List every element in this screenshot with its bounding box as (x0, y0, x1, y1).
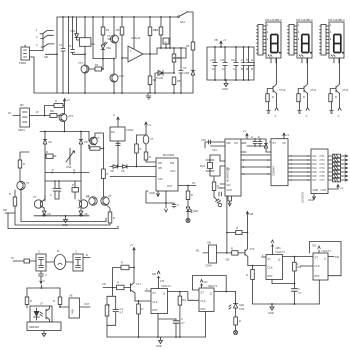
svg-text:GND: GND (156, 344, 162, 348)
svg-text:OT5: OT5 (320, 170, 326, 174)
capacitor C23 (253, 139, 257, 146)
diode VD5 (264, 139, 271, 152)
transistor VT7 (17, 181, 25, 189)
wire second input (110, 176, 156, 178)
varistor RU1 (66, 148, 75, 165)
resistor R4 (149, 17, 151, 27)
wire dac out (117, 141, 119, 167)
svg-text:OT3: OT3 (320, 162, 326, 166)
svg-text:74HC74: 74HC74 (321, 249, 331, 253)
svg-text:CLK: CLK (153, 300, 158, 304)
wire (60, 306, 69, 308)
svg-text:IN7: IN7 (313, 178, 318, 182)
svg-text:LED: LED (193, 209, 198, 213)
svg-text:VT1: VT1 (78, 61, 83, 65)
resistor R43 (293, 257, 295, 263)
svg-text:R: R (107, 172, 109, 176)
IC U2 right pin stubs (241, 143, 246, 152)
wire lower verticals (45, 173, 81, 200)
diode VD3 (191, 71, 195, 94)
svg-text:C: C (177, 203, 179, 207)
SECTION B: capacitor bank (207, 38, 254, 91)
svg-text:R: R (272, 95, 274, 99)
IC U2 bottom stubs (228, 196, 232, 206)
diode VD1 (75, 17, 80, 40)
svg-text:DR: DR (158, 161, 162, 165)
svg-text:ST: ST (201, 291, 205, 295)
svg-text:R9: R9 (186, 44, 190, 48)
wire branch (93, 17, 103, 59)
svg-text:IN4: IN4 (313, 166, 318, 170)
svg-text:R: R (335, 95, 337, 99)
capacitor C17 (57, 181, 61, 199)
wire output (83, 257, 90, 259)
svg-text:VT: VT (150, 137, 154, 141)
motor M1 (46, 261, 55, 263)
wire R pin loop (272, 280, 294, 284)
capacitor C10 (213, 47, 217, 80)
resistor R2 (88, 68, 95, 70)
wire relay bottom (73, 53, 85, 55)
svg-text:ST: ST (268, 257, 272, 261)
svg-text:Q: Q (163, 292, 165, 296)
wire ground rail (34, 92, 193, 94)
svg-text:VB: VB (214, 38, 218, 42)
svg-text:V: V (275, 114, 277, 118)
svg-text:C3: C3 (183, 66, 187, 70)
diode VD11 (118, 165, 157, 169)
supply +V stub (200, 280, 202, 289)
svg-text:VD: VD (47, 212, 51, 216)
IC U6 MC34063 (156, 158, 178, 191)
supply arrow (40, 279, 42, 284)
svg-text:GND: GND (313, 188, 319, 192)
svg-text:R: R (246, 273, 248, 277)
wire output (80, 306, 91, 308)
svg-text:VT10: VT10 (279, 88, 286, 92)
svg-text:R: R (53, 299, 55, 303)
svg-text:V: V (338, 114, 340, 118)
svg-text:ULN2003: ULN2003 (301, 191, 305, 203)
svg-text:OT4: OT4 (320, 166, 326, 170)
wire connector to switches (30, 50, 44, 52)
resistor R15 (72, 188, 79, 193)
wire emitter to clk (135, 300, 151, 302)
svg-text:+V: +V (286, 133, 290, 137)
capacitor C20 (205, 140, 220, 148)
svg-text:+V: +V (148, 123, 152, 127)
transistor VT15 (245, 249, 248, 257)
transistor VT13 (143, 135, 149, 144)
svg-text:RST: RST (268, 274, 274, 278)
svg-text:VT: VT (108, 194, 112, 198)
svg-text:IN5: IN5 (313, 170, 318, 174)
svg-text:OUT: OUT (167, 184, 173, 188)
svg-text:7406: 7406 (71, 309, 75, 315)
switch SA1 (178, 12, 188, 18)
svg-text:D: D (246, 58, 248, 62)
svg-text:GND: GND (222, 87, 228, 91)
resistor R14 (46, 154, 53, 159)
ground (165, 203, 168, 212)
svg-text:ST: ST (273, 141, 277, 145)
svg-text:DA: DA (111, 130, 115, 134)
svg-text:A: A (165, 40, 167, 44)
bus U3 to U4 (288, 156, 311, 180)
SECTION A: analog front end (19, 12, 195, 100)
capacitor C16 (53, 181, 57, 199)
ground (42, 331, 46, 337)
capacitor C24 (258, 139, 262, 146)
wire top power rail (57, 16, 178, 18)
svg-text:GN: GN (312, 244, 316, 248)
svg-text:VD: VD (102, 282, 106, 286)
wire op-amp output (143, 53, 157, 55)
transistor VT11 (297, 58, 317, 118)
resistor R13 (102, 169, 106, 179)
resistor R18 (107, 205, 111, 212)
svg-text:R6: R6 (155, 28, 159, 32)
supply +V stub (157, 271, 160, 289)
svg-text:CD40: CD40 (205, 264, 212, 268)
supply +V (241, 134, 248, 140)
svg-text:R: R (121, 261, 123, 265)
resistor R21 (136, 135, 138, 144)
wire input (13, 115, 20, 117)
svg-text:OT1: OT1 (320, 154, 326, 158)
svg-text:R: R (231, 247, 233, 251)
capacitor C11 (223, 47, 227, 80)
svg-text:R: R (9, 192, 11, 196)
svg-text:R: R (191, 193, 193, 197)
svg-text:MR: MR (227, 141, 231, 145)
svg-text:R: R (117, 281, 119, 285)
svg-text:VT11: VT11 (310, 88, 317, 92)
svg-text:R3: R3 (116, 28, 120, 32)
connector J1 (21, 47, 30, 60)
svg-text:CON: CON (321, 188, 327, 192)
resistor R25 (24, 259, 30, 263)
svg-text:4.7: 4.7 (298, 291, 302, 295)
wire right (217, 252, 232, 254)
svg-text:C: C (45, 273, 47, 277)
resistor R3 (121, 17, 123, 27)
diode VD9 (79, 208, 83, 215)
capacitor C30 (291, 289, 297, 304)
svg-text:VD3: VD3 (184, 71, 190, 75)
resistor R8 (172, 77, 176, 85)
relay K1 (79, 38, 91, 47)
resistor R35 (235, 308, 237, 317)
wire input (13, 260, 24, 262)
svg-text:DIS 1234BS-A: DIS 1234BS-A (296, 18, 313, 22)
LED VD12 (186, 207, 192, 218)
capacitor C13 (242, 47, 246, 80)
svg-text:+V: +V (340, 186, 344, 190)
resistor R12 (45, 106, 54, 116)
svg-text:ST: ST (153, 291, 157, 295)
wire S stub (145, 290, 151, 292)
resistor network RP (328, 154, 348, 182)
svg-text:P: P (52, 168, 54, 172)
wire R pin loop (158, 314, 176, 338)
wire Q out (283, 256, 314, 258)
resistor R16 (20, 152, 29, 160)
svg-text:U7: U7 (40, 302, 44, 306)
label box (27, 322, 61, 331)
svg-text:GND: GND (268, 311, 274, 315)
IC U10 flipflop (199, 288, 214, 312)
svg-text:ST: ST (315, 256, 319, 260)
LED VD2 (101, 42, 107, 59)
gnd arrow (214, 197, 221, 203)
transistor VT14 (131, 283, 136, 293)
transistor VT3 (59, 114, 67, 122)
wire collector up (95, 133, 103, 169)
capacitor C22 (218, 188, 222, 196)
svg-text:3V: 3V (192, 181, 195, 185)
ground (270, 304, 274, 310)
svg-text:C: C (298, 287, 300, 291)
capacitor C15 (251, 63, 255, 66)
resistor R20 (213, 176, 215, 182)
svg-text:IN2: IN2 (313, 158, 318, 162)
svg-text:CA: CA (227, 167, 231, 171)
capacitor C25 (172, 203, 176, 208)
svg-text:R: R (149, 155, 151, 159)
IC U4 ULN2003 (311, 149, 328, 194)
wire bottom rail (34, 215, 89, 217)
SECTION H: flipflops left (102, 243, 245, 348)
svg-text:VD: VD (121, 169, 125, 173)
svg-text:IN: IN (8, 111, 11, 115)
svg-text:Q: Q (278, 258, 280, 262)
svg-text:CLK: CLK (201, 299, 206, 303)
svg-text:M: M (57, 249, 59, 253)
svg-text:C12: C12 (231, 58, 236, 62)
diode VD10 (110, 165, 118, 169)
svg-text:V: V (43, 279, 45, 283)
filter box Z2 (66, 261, 73, 263)
transistor VT1 (81, 65, 89, 73)
transistor VT2a (111, 35, 119, 43)
svg-text:R: R (113, 216, 115, 220)
supply +V (133, 248, 135, 253)
svg-text:C10: C10 (210, 58, 215, 62)
svg-text:0.5A: 0.5A (66, 165, 72, 169)
svg-text:RST: RST (315, 274, 321, 278)
display HG1 (257, 18, 283, 63)
svg-text:DIS 1234BS-A: DIS 1234BS-A (328, 18, 345, 22)
crystal box G1 (209, 245, 217, 263)
wire (137, 127, 147, 135)
svg-text:GB: GB (152, 272, 156, 276)
resistor R14b (89, 145, 90, 148)
SECTION C: displays (257, 18, 349, 118)
input arrow A (117, 117, 119, 127)
svg-text:R8: R8 (177, 79, 181, 83)
shunt reference TL431 (155, 71, 174, 94)
svg-text:R: R (239, 319, 241, 323)
svg-text:74HC74: 74HC74 (161, 284, 171, 288)
svg-text:MC34063: MC34063 (163, 153, 175, 157)
display HG3 (320, 18, 346, 63)
svg-text:74HC74: 74HC74 (208, 284, 218, 288)
IC U2 MCU (225, 139, 241, 196)
IC U4 com wire (328, 185, 339, 190)
svg-text:4.7: 4.7 (181, 321, 185, 325)
supply +V stub (271, 240, 273, 255)
svg-text:C20: C20 (201, 138, 206, 142)
wire loop outer (21, 190, 106, 222)
transistor VT2 (114, 17, 116, 74)
wire connector to ground rail (30, 57, 35, 93)
LED VD13 (229, 292, 238, 310)
svg-text:R2: R2 (95, 63, 99, 67)
resistor R34 (179, 292, 181, 297)
sensor box B1 (20, 108, 30, 127)
capacitor C2 (71, 17, 75, 54)
driver box U8 (69, 298, 80, 318)
svg-text:OT6: OT6 (320, 174, 326, 178)
svg-text:R: R (142, 307, 144, 311)
svg-text:M1: M1 (196, 249, 200, 253)
ground circle (186, 219, 190, 223)
svg-text:B: B (86, 253, 88, 257)
svg-text:VT2: VT2 (250, 247, 255, 251)
supply +V (145, 122, 147, 127)
svg-text:GN1: GN1 (227, 188, 233, 192)
svg-text:VD: VD (84, 140, 88, 144)
wire feedback right (174, 48, 186, 58)
svg-text:VT12: VT12 (342, 88, 349, 92)
wire VD input (103, 287, 117, 289)
switch S1 (40, 31, 54, 34)
capacitor C1 (61, 17, 65, 93)
svg-text:RA: RA (183, 298, 187, 302)
transistor VT9 (101, 197, 109, 205)
resistor R31 (117, 285, 125, 290)
wire Q out (214, 291, 236, 293)
resistor R33 (105, 305, 109, 316)
wire S loop over top (310, 241, 341, 275)
resistor R30 (113, 267, 121, 269)
svg-text:PWR1: PWR1 (19, 61, 27, 65)
svg-text:V: V (306, 114, 308, 118)
left branch (107, 288, 116, 306)
svg-text:LED: LED (239, 303, 244, 307)
SECTION G: optocoupler (11, 249, 90, 337)
wire op-amp plus input (128, 17, 134, 50)
capacitor C28 (173, 319, 179, 337)
svg-text:C: C (75, 250, 77, 254)
svg-text:N: N (73, 168, 75, 172)
svg-text:-: - (130, 58, 131, 61)
wire U12 clk (300, 265, 313, 267)
svg-text:+V: +V (67, 98, 71, 102)
resistor R27 (59, 288, 61, 297)
filter box Z1 (36, 254, 46, 271)
svg-text:GB4S28: GB4S28 (29, 325, 39, 329)
svg-text:VT1: VT1 (136, 282, 141, 286)
capacitor C31 (116, 143, 120, 145)
wire switch pole (42, 34, 44, 51)
SECTION F: regulator (110, 113, 198, 223)
wire (169, 17, 171, 48)
svg-text:OS: OS (234, 141, 238, 145)
capacitor C14 (247, 47, 251, 80)
crystal ZQ1 (206, 155, 214, 176)
wire bottom loop (146, 191, 174, 203)
wire R pin to rail (318, 280, 320, 304)
wire to +V column (188, 12, 193, 42)
svg-text:R: R (46, 150, 48, 154)
bus U2 to U3 (241, 155, 271, 174)
svg-text:CIN: CIN (158, 177, 163, 181)
wire R pin to rail (205, 312, 207, 338)
wire mid rail (45, 172, 89, 174)
transistor VT6 (79, 200, 87, 208)
svg-text:IN3: IN3 (313, 162, 318, 166)
resistor R26 (26, 288, 28, 297)
svg-text:OUT: OUT (84, 302, 90, 306)
svg-text:0.5A: 0.5A (239, 307, 245, 311)
svg-text:MC: MC (20, 103, 24, 107)
svg-text:M: M (251, 67, 253, 71)
supply +V (283, 133, 285, 139)
svg-text:DR: DR (50, 109, 54, 113)
IC U9 flipflop (151, 289, 168, 314)
ground (159, 337, 163, 344)
ground (64, 216, 68, 223)
ground (224, 80, 228, 87)
capacitor C3 (179, 48, 183, 93)
svg-text:FIN: FIN (335, 255, 339, 259)
node rail-left (56, 17, 58, 93)
resistor R11 (50, 114, 57, 118)
svg-text:C21: C21 (212, 148, 217, 152)
wire bottom rail (253, 303, 320, 305)
svg-text:VD: VD (110, 169, 114, 173)
wire node58 (103, 59, 114, 69)
op-amp U1 LM6142 (128, 46, 143, 62)
IC U11 flipflop (266, 255, 283, 280)
svg-text:CONV: CONV (126, 128, 134, 132)
wire to driver (30, 115, 51, 117)
svg-text:C11: C11 (220, 58, 225, 62)
display HG2 (288, 18, 314, 63)
svg-text:C: C (251, 135, 253, 139)
resistor R9 (191, 42, 195, 50)
svg-text:IN: IN (11, 256, 14, 260)
svg-text:VT3: VT3 (68, 114, 73, 118)
svg-text:GB: GB (226, 258, 230, 262)
SECTION I: flipflops right (196, 196, 341, 315)
wire output (178, 185, 196, 187)
supply +V arrow (246, 212, 248, 218)
svg-text:R: R (303, 95, 305, 99)
svg-text:VD: VD (84, 212, 88, 216)
ground (146, 93, 151, 99)
svg-text:R1: R1 (106, 28, 110, 32)
svg-text:GND: GND (149, 191, 155, 195)
svg-text:Q: Q (324, 257, 326, 261)
svg-text:M: M (246, 67, 248, 71)
svg-text:DIS 1234BS-A: DIS 1234BS-A (265, 18, 282, 22)
svg-text:C2: C2 (68, 44, 72, 48)
svg-text:LM6142: LM6142 (131, 36, 141, 40)
svg-text:VT: VT (107, 34, 111, 38)
